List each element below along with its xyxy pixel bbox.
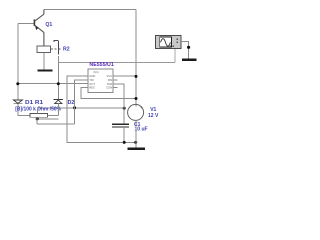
wire left rail	[17, 23, 19, 100]
relay linkage dashes	[51, 48, 57, 50]
wire pot right to D2	[47, 114, 58, 116]
wire right rail upper	[135, 10, 137, 107]
wire scope to ground	[181, 41, 188, 58]
svg-text:DIS: DIS	[108, 78, 113, 82]
wire bottom rail	[37, 123, 74, 125]
node dot TRG net	[73, 106, 76, 109]
svg-text:R2: R2	[63, 47, 70, 53]
diode D2	[54, 99, 63, 103]
pot R1 wiper riser	[37, 108, 39, 114]
wire 555 pin TRI loop to bottom rail	[75, 80, 89, 124]
ground scope	[182, 59, 196, 61]
svg-text:D1 R1: D1 R1	[25, 100, 43, 106]
svg-text:CON: CON	[106, 86, 112, 90]
relay contact	[54, 41, 60, 55]
wire VCC to rail	[113, 75, 136, 77]
wire scope probe	[174, 48, 176, 62]
svg-text:THR: THR	[107, 82, 113, 86]
node dot contact line	[57, 82, 60, 85]
source V1	[128, 104, 144, 120]
transistor Q1 emitter arrow (PNP)	[35, 26, 39, 31]
wire Q1 base	[18, 22, 35, 24]
wire THR pin to cap	[113, 84, 124, 125]
svg-text:(U1): (U1)	[94, 70, 99, 74]
wire D2 bottom	[57, 104, 59, 116]
wire 555 pin GND loop to ground net	[67, 76, 136, 142]
wire contact lower vertical to D2	[57, 56, 59, 99]
IC U1 NE555 body	[88, 69, 113, 92]
node dot pot wiper	[36, 117, 39, 120]
node dot scope	[187, 46, 190, 49]
wire V1 bottom	[135, 120, 137, 147]
svg-text:D2: D2	[68, 100, 75, 106]
svg-text:VCC: VCC	[107, 74, 113, 78]
pin stub R4 CON	[113, 87, 117, 89]
wire D1 bottom	[18, 104, 30, 116]
node dot v1 gnd	[134, 141, 137, 144]
relay coil R2	[37, 46, 50, 52]
node dot left rail	[16, 82, 19, 85]
svg-text:Q1: Q1	[45, 22, 52, 28]
svg-text:NE555/U1: NE555/U1	[89, 62, 114, 68]
wire 555 pin RES loop to right rail	[81, 88, 136, 99]
wire cap bottom	[123, 127, 125, 142]
ground relay	[37, 69, 52, 71]
svg-text:GND: GND	[89, 74, 95, 78]
svg-text:RES: RES	[89, 86, 95, 90]
wire pot wiper out	[37, 118, 58, 120]
wire TRG node horizontal	[38, 107, 125, 109]
oscilloscope XSC1	[156, 36, 182, 49]
svg-text:OUT: OUT	[89, 82, 95, 86]
wire top rail	[44, 9, 136, 11]
node dot VCC rail	[135, 75, 138, 78]
svg-text:[B]/100 k Ohm /50%: [B]/100 k Ohm /50%	[15, 106, 61, 112]
node dot rail 98	[135, 97, 138, 100]
wire node THR/TRG horizontal	[18, 83, 88, 85]
svg-text:TRI: TRI	[89, 78, 94, 82]
capacitor C1 plates	[112, 123, 129, 125]
svg-text:12 V: 12 V	[148, 113, 159, 119]
node dot cap gnd	[123, 141, 126, 144]
transistor Q1	[34, 10, 44, 47]
pin labels left	[89, 74, 95, 89]
node dot cap top net	[123, 107, 126, 110]
ground bottom	[128, 148, 146, 150]
diode D1	[13, 100, 22, 104]
wire contact output to scope	[58, 61, 175, 63]
wire coil to ground	[43, 52, 45, 69]
pin stub R2	[113, 79, 117, 81]
wire pot dot to gnd rail	[36, 117, 38, 124]
potentiometer R1	[30, 113, 47, 117]
pin labels right	[106, 74, 112, 89]
